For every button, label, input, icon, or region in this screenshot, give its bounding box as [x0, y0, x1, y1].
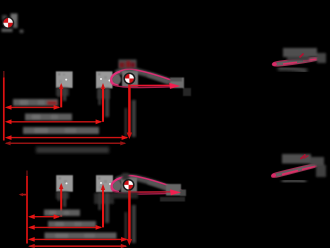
nose interior gray bottom — [113, 181, 122, 192]
CG halo top — [122, 71, 138, 87]
moment label top (gray) — [119, 60, 137, 69]
arrow 2 bottom halo — [105, 193, 109, 223]
dim line 4 top (dark red) — [6, 142, 125, 144]
lower surface top (dark) — [113, 85, 183, 88]
arrow 1 bottom — [60, 186, 62, 217]
label L2 bottom — [96, 175, 113, 192]
arrow 2 bottom — [102, 187, 104, 228]
dim line 2 bottom — [48, 221, 96, 228]
main airfoil top — [111, 69, 183, 84]
tail label bottom — [282, 154, 326, 177]
label L1 bottom shadow — [56, 192, 69, 199]
nose interior gray top — [112, 74, 121, 85]
label L1 top white speck — [65, 79, 67, 81]
tail label top — [283, 48, 326, 63]
TE label top (gray) — [170, 78, 191, 97]
main airfoil bottom — [111, 176, 183, 192]
label L1 top (gray artifact box) — [56, 71, 73, 88]
chord arrow top — [131, 84, 172, 86]
label L2 top shadow — [97, 89, 110, 99]
dim line 2 top — [25, 114, 72, 121]
weight arrow top halo — [132, 100, 136, 137]
nose ring top — [111, 72, 120, 86]
small stub left of datum — [21, 194, 27, 196]
label L2 bottom white specks — [100, 182, 102, 184]
faint box above bottom airfoil — [112, 173, 138, 199]
lower surface bottom (dark) — [113, 191, 183, 194]
arrow 1 bottom halo — [63, 192, 66, 207]
dim line 3 top — [23, 127, 99, 134]
CG symbol bottom — [123, 180, 133, 190]
tail airfoil top — [272, 58, 322, 71]
upper surface descent gray band top — [148, 75, 172, 83]
legend artifact patch — [2, 14, 24, 34]
label L1 top shadow — [56, 88, 69, 96]
weight arrow bottom halo — [132, 205, 136, 243]
dim line 3 bottom — [45, 233, 117, 240]
arrow 2 top halo — [105, 88, 109, 117]
main airfoil bottom: gray noise band along upper surface — [117, 177, 170, 188]
CG symbol top — [124, 73, 134, 83]
label L2 bottom shadow — [94, 193, 114, 204]
dim line 1 bottom — [44, 210, 80, 217]
dim line 1 top — [13, 99, 58, 106]
dim line 4 bottom (dark) — [30, 245, 127, 247]
label L1 bottom — [56, 175, 73, 192]
label L1 bottom white speck — [66, 182, 68, 184]
datum line top — [3, 71, 5, 78]
CG halo bottom — [121, 178, 137, 194]
TE label bottom — [160, 184, 186, 202]
arrow 2 top (up) — [102, 86, 104, 122]
moment arc top (dark red smudges) — [120, 61, 136, 68]
arrow 1 top (up) — [60, 86, 62, 108]
legend CG symbol — [3, 17, 14, 28]
label L2 top — [96, 71, 113, 88]
label L2 top white specks — [100, 78, 102, 80]
arrow 1 top halo — [63, 88, 66, 101]
chord arrow bottom — [131, 191, 172, 193]
upper surface descent gray band bottom — [148, 182, 172, 190]
tail airfoil bottom — [272, 164, 322, 182]
datum line bottom — [26, 171, 28, 178]
main airfoil top: gray noise band along upper surface — [116, 70, 169, 81]
nose ring bottom — [112, 178, 121, 192]
